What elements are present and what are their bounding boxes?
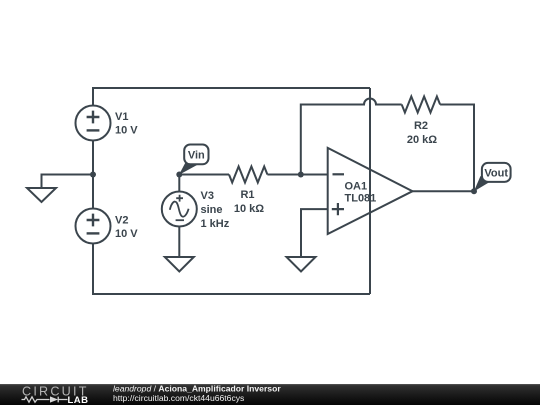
voltage source V3 (sine) (162, 192, 197, 227)
wire non-inverting input to ground (301, 209, 328, 257)
label R2 value (407, 120, 437, 146)
node dot feedback tap (298, 172, 304, 178)
svg-text:10 kΩ: 10 kΩ (234, 203, 264, 215)
node Vout dot (471, 188, 477, 194)
svg-text:20 kΩ: 20 kΩ (407, 134, 437, 146)
wire V3 top to Vin node (178, 175, 180, 192)
label OA1 name (345, 181, 377, 205)
wire Vin node to R1 (179, 174, 229, 176)
svg-text:Vin: Vin (188, 150, 205, 162)
svg-text:OA1: OA1 (345, 181, 368, 193)
wire op-amp output to Vout node (413, 190, 475, 192)
wire V3 bottom to ground (178, 227, 180, 257)
ground (below V3) (165, 257, 194, 272)
op-amp inverting pin mark (333, 173, 345, 175)
ground (op-amp non-inverting input) (287, 257, 316, 272)
wire bottom rail to V2 minus terminal (93, 244, 370, 294)
op-amp non-inverting pin mark (332, 203, 344, 215)
label V3 value (201, 190, 230, 230)
svg-text:1 kHz: 1 kHz (201, 218, 230, 230)
resistor R1 (229, 167, 267, 183)
label V2 value (115, 215, 138, 241)
svg-text:V2: V2 (115, 215, 128, 227)
node junction dot V1/V2 midpoint (90, 172, 96, 178)
svg-text:LAB: LAB (68, 395, 89, 405)
svg-text:http://circuitlab.com/ckt44u66: http://circuitlab.com/ckt44u66t6cys (113, 393, 244, 403)
node label Vout (474, 163, 511, 192)
svg-text:10 V: 10 V (115, 228, 138, 240)
svg-text:R2: R2 (414, 120, 428, 132)
voltage source V1 (76, 106, 111, 141)
node label Vin (179, 145, 209, 175)
op-amp U1 triangle (328, 148, 413, 234)
node Vin dot (176, 172, 182, 178)
voltage source V2 (76, 209, 111, 244)
svg-text:TL081: TL081 (345, 193, 377, 205)
svg-text:Vout: Vout (484, 168, 508, 180)
wire V1 bottom to V2 top through junction (92, 141, 94, 209)
svg-text:10 V: 10 V (115, 125, 138, 137)
wire R2 to output node (440, 105, 474, 192)
footer bar (0, 384, 540, 405)
ground (left, between V1 and V2) (27, 188, 56, 202)
wire R1 to op-amp inverting input (267, 174, 327, 176)
svg-text:R1: R1 (240, 189, 254, 201)
wire top rail from V1 plus terminal to right power rail (93, 88, 370, 106)
label V1 value (115, 111, 138, 137)
wire right power rail through op-amp supply pins (369, 88, 371, 294)
label R1 value (234, 189, 264, 215)
wire feedback riser and run with hop over power rail (301, 99, 402, 175)
wire junction to left ground (42, 175, 94, 188)
svg-text:sine: sine (201, 204, 223, 216)
CircuitLab logo (22, 385, 89, 405)
svg-text:V3: V3 (201, 190, 214, 202)
attribution text (113, 384, 281, 403)
svg-text:V1: V1 (115, 111, 128, 123)
resistor R2 (402, 97, 440, 113)
